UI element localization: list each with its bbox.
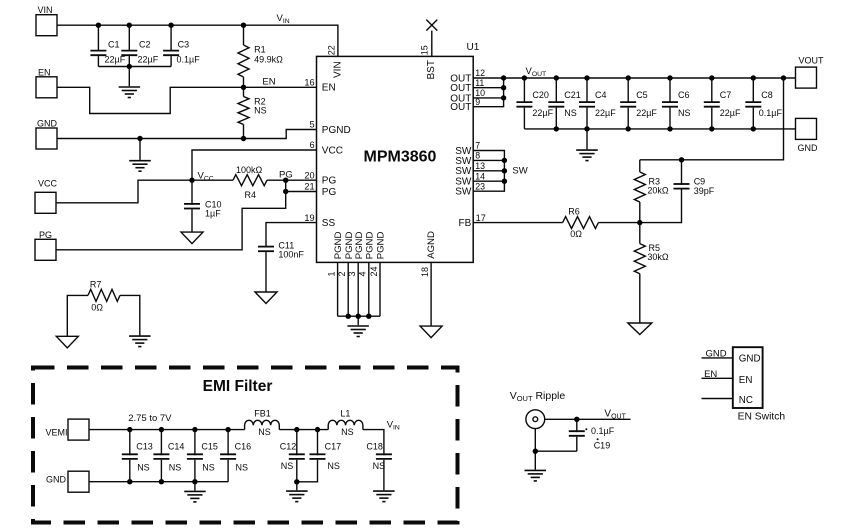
EMI filter dashed box (33, 368, 458, 523)
svg-text:U1: U1 (467, 42, 480, 53)
resistor R7 0ohm (67, 279, 140, 336)
svg-text:PG: PG (322, 187, 337, 198)
svg-text:FB: FB (459, 218, 472, 229)
svg-text:17: 17 (476, 213, 486, 223)
svg-text:PGND: PGND (376, 232, 387, 260)
ground triangle under C10 (181, 232, 203, 244)
svg-text:R7: R7 (90, 279, 102, 289)
svg-text:0Ω: 0Ω (570, 229, 582, 239)
capacitor C15 NS (187, 430, 218, 482)
wire L1 to C18 (363, 430, 384, 456)
junction dots VOUT rail (522, 75, 787, 80)
svg-text:7: 7 (475, 141, 480, 151)
ferrite bead FB1 (245, 409, 280, 437)
capacitor C2 (121, 25, 158, 66)
svg-text:23: 23 (475, 181, 485, 191)
ground under C2 (119, 67, 141, 98)
svg-text:VOUT: VOUT (799, 56, 825, 66)
svg-text:100nF: 100nF (278, 250, 304, 260)
net label Vout ripple (604, 409, 626, 421)
ground under PGND pins (347, 316, 369, 336)
svg-text:GND: GND (706, 349, 727, 360)
resistor R4 100k (192, 165, 317, 200)
pad GND (36, 118, 58, 149)
capacitor C10 1uF (184, 180, 222, 232)
svg-text:C14: C14 (168, 441, 185, 451)
capacitor C6 NS (662, 78, 691, 129)
pin label OUT pin 10 (450, 93, 471, 104)
pad VEMI (45, 419, 89, 440)
pin number 4 (358, 271, 368, 276)
pin number 10 (475, 88, 485, 98)
svg-text:C1: C1 (108, 40, 120, 50)
svg-text:8: 8 (475, 151, 480, 161)
capacitor C3 (163, 25, 200, 66)
connector Vout ripple jack (526, 410, 545, 429)
wire GND net to pin 5 (57, 130, 317, 139)
svg-text:3: 3 (347, 271, 357, 276)
pin number 16 (304, 78, 314, 88)
svg-text:22µF: 22µF (595, 108, 616, 118)
ground under C4 (576, 129, 598, 161)
svg-text:C5: C5 (636, 90, 648, 100)
junction dots C12 C17 top (294, 427, 320, 432)
net label Vcc (198, 171, 214, 183)
svg-text:GND: GND (46, 475, 67, 485)
svg-text:NS: NS (341, 427, 354, 437)
wire pin 19 SS net (266, 223, 317, 248)
svg-text:C20: C20 (532, 90, 549, 100)
svg-text:C8: C8 (761, 90, 773, 100)
net label EN (262, 77, 275, 88)
wire FB1 to C12/C17 (279, 429, 328, 431)
svg-text:FB1: FB1 (254, 409, 271, 419)
capacitor C1 (90, 25, 125, 66)
svg-text:GND: GND (798, 143, 819, 153)
pin number 1 (326, 271, 336, 276)
pin number 23 (475, 181, 485, 191)
net label Vout (526, 66, 547, 78)
svg-text:C3: C3 (178, 40, 190, 50)
pin label PGND pin 1 (333, 232, 344, 260)
pin label BST (426, 60, 437, 79)
svg-text:C2: C2 (139, 40, 151, 50)
svg-text:NS: NS (281, 461, 294, 471)
wire FB net (473, 222, 562, 224)
pad VIN (36, 5, 57, 36)
pin label PGND pin 5 (322, 125, 351, 136)
net label VIN EMI (387, 420, 400, 432)
pad EN (36, 68, 57, 98)
ground triangle under C11 (255, 292, 277, 304)
svg-text:VCC: VCC (322, 145, 343, 156)
svg-text:15: 15 (419, 45, 429, 55)
pin number 18 (420, 267, 430, 277)
net label VIN (277, 13, 290, 25)
svg-text:13: 13 (475, 161, 485, 171)
svg-text:GND: GND (37, 118, 58, 128)
svg-text:2: 2 (337, 271, 347, 276)
pad GND EMI (46, 471, 89, 492)
svg-text:22: 22 (326, 45, 336, 55)
svg-text:0.1µF: 0.1µF (759, 108, 783, 118)
svg-text:C17: C17 (325, 441, 342, 451)
capacitor C11 100nF (258, 241, 304, 292)
svg-text:C19: C19 (594, 441, 611, 451)
pin number 24 (369, 266, 379, 276)
inductor L1 (328, 409, 363, 437)
pin number 15 (419, 45, 429, 55)
pin label PG pin 20 (322, 176, 337, 187)
svg-text:NS: NS (236, 463, 249, 473)
resistor R5 30k (634, 223, 669, 323)
svg-text:EN: EN (38, 68, 51, 78)
pad PG (35, 230, 56, 260)
junction dots PGND bar (346, 314, 372, 319)
junction dot EN/R1 (241, 85, 246, 90)
label EN (704, 369, 717, 380)
pin label OUT pin 12 (450, 73, 471, 84)
svg-text:VEMI: VEMI (45, 428, 67, 438)
ground under C12 (286, 482, 308, 502)
capacitor C8 0.1µF (745, 78, 782, 129)
pin number 17 (476, 213, 486, 223)
ground triangle AGND (420, 326, 442, 338)
pad VCC (35, 179, 58, 214)
svg-text:EN: EN (704, 369, 717, 380)
svg-text:22µF: 22µF (138, 55, 159, 65)
svg-text:14: 14 (475, 171, 485, 181)
pin number 5 (309, 120, 314, 130)
svg-text:NS: NS (373, 461, 386, 471)
junction dots EMI bottom rail (127, 479, 197, 484)
wire Vout ripple top (545, 418, 631, 420)
pin label SW pin 7 (455, 146, 472, 157)
svg-text:NS: NS (678, 108, 691, 118)
svg-text:1µF: 1µF (205, 209, 221, 219)
junction dot FB node (637, 220, 642, 225)
label GND (706, 349, 727, 360)
svg-text:NS: NS (327, 461, 340, 471)
wire cap bank bottom rail (524, 128, 795, 130)
wire EMI bottom rail (89, 481, 228, 483)
svg-text:MPM3860: MPM3860 (364, 149, 437, 166)
capacitor C9 39pF (640, 160, 715, 223)
title EMI Filter (203, 378, 273, 395)
svg-text:20kΩ: 20kΩ (647, 186, 669, 196)
resistor R1 49.9k (238, 25, 283, 87)
pin label SW pin 23 (455, 187, 472, 198)
svg-text:C13: C13 (136, 441, 153, 451)
pin label FB (459, 218, 472, 229)
capacitor C18 NS (366, 441, 392, 490)
svg-text:0Ω: 0Ω (91, 303, 103, 313)
svg-text:R4: R4 (245, 190, 257, 200)
junction dots SW bus (502, 158, 507, 184)
pin label VCC pin 6 (322, 145, 343, 156)
svg-text:GND: GND (739, 353, 761, 364)
pin label PGND pin 24 (376, 232, 387, 260)
capacitor C19 0.1uF (569, 419, 615, 451)
svg-text:C6: C6 (678, 90, 690, 100)
capacitor C21 NS (548, 78, 581, 129)
svg-text:PGND: PGND (333, 232, 344, 260)
pin label OUT pin 9 (450, 102, 471, 113)
wire EN switch GND (702, 357, 733, 359)
ground under C18 (373, 491, 395, 502)
junction dot Vcc node (189, 178, 194, 183)
ground bars R7 right (129, 336, 151, 347)
svg-text:EN Switch: EN Switch (738, 411, 786, 422)
pin number 20 (304, 170, 314, 180)
svg-text:PG: PG (39, 230, 52, 240)
pin number 21 (304, 182, 314, 192)
svg-text:NS: NS (137, 463, 150, 473)
wire PGND bottom stubs (338, 262, 380, 316)
pin label SW pin 14 (455, 177, 472, 188)
pin number 22 (326, 45, 336, 55)
resistor R2 NS (238, 87, 267, 138)
svg-text:EN: EN (262, 77, 275, 88)
ground triangle under R5 (628, 323, 652, 335)
svg-text:PGND: PGND (364, 232, 375, 260)
svg-text:100kΩ: 100kΩ (236, 165, 263, 175)
wire SW pins bus (473, 151, 504, 192)
ground on GND net (129, 139, 151, 172)
svg-text:NS: NS (202, 463, 215, 473)
junction dot C2 bottom (127, 64, 132, 69)
pin label PGND pin 3 (354, 232, 365, 260)
wire Vout ripple bottom (535, 429, 577, 470)
pin number 11 (475, 78, 484, 88)
svg-text:0.1µF: 0.1µF (177, 55, 201, 65)
svg-text:NS: NS (169, 463, 182, 473)
pin number 19 (304, 213, 314, 223)
op IC U1 MPM3860 (317, 42, 480, 262)
svg-text:R1: R1 (254, 44, 266, 54)
svg-text:C12: C12 (280, 441, 297, 451)
svg-text:C21: C21 (564, 90, 581, 100)
svg-text:39pF: 39pF (694, 186, 715, 196)
capacitor C16 NS (220, 430, 251, 482)
pin number 3 (347, 271, 357, 276)
wire OUT pins bus (473, 78, 503, 107)
junction dot C19 top (574, 417, 579, 422)
pin label SW pin 13 (455, 166, 472, 177)
wire EMI input rail (89, 429, 245, 431)
svg-text:PG: PG (322, 176, 337, 187)
pin number 12 (475, 68, 485, 78)
EN switch box (733, 347, 763, 408)
no-connect X on BST (426, 20, 437, 31)
pin label VIN (333, 61, 344, 78)
junction dots VIN rail (96, 23, 247, 28)
svg-text:SW: SW (455, 187, 472, 198)
svg-text:BST: BST (426, 60, 437, 79)
wire EN switch NC (702, 398, 733, 400)
pin number 8 (475, 151, 480, 161)
svg-text:SW: SW (455, 156, 472, 167)
svg-text:EN: EN (739, 375, 753, 386)
capacitor C17 NS (297, 430, 341, 482)
svg-text:22µF: 22µF (636, 108, 657, 118)
junction dots GND net (137, 136, 246, 141)
wire EN switch EN (702, 377, 733, 379)
net label PG (279, 169, 293, 180)
svg-text:SW: SW (512, 166, 527, 177)
svg-text:2.75 to 7V: 2.75 to 7V (128, 413, 172, 424)
svg-text:SW: SW (455, 166, 472, 177)
wire VCC pad to Vcc node (56, 180, 192, 203)
junction dots OUT bus (501, 75, 506, 100)
ground triangle R7 left (56, 336, 78, 348)
pin label EN pin 16 (322, 83, 336, 94)
wire pin 21 and PG pad net (56, 180, 317, 250)
junction dots EMI input rail (127, 427, 231, 432)
junction dot C9 top (679, 157, 684, 162)
svg-text:L1: L1 (340, 409, 350, 419)
wire BST pin 15 (431, 31, 433, 57)
junction dots PG node (283, 178, 288, 195)
pin label PGND pin 4 (364, 232, 375, 260)
label 2.75 to 7V (128, 413, 172, 424)
pad GND right (796, 118, 819, 152)
ground Vout ripple (525, 470, 547, 481)
junction dot ripple gnd (533, 449, 538, 454)
svg-text:6: 6 (309, 140, 314, 150)
svg-text:PGND: PGND (354, 232, 365, 260)
svg-text:EN: EN (322, 83, 336, 94)
pin number 7 (475, 141, 480, 151)
svg-text:NS: NS (564, 108, 577, 118)
svg-text:0.1µF: 0.1µF (591, 426, 615, 436)
svg-text:4: 4 (358, 271, 368, 276)
svg-text:C4: C4 (595, 90, 607, 100)
capacitor C14 NS (153, 430, 184, 482)
svg-text:19: 19 (304, 213, 314, 223)
wire EN net (57, 87, 317, 113)
capacitor C5 22µF (620, 78, 657, 129)
wire AGND stub (430, 262, 432, 326)
svg-text:22µF: 22µF (532, 108, 553, 118)
label Vout Ripple (510, 390, 566, 403)
svg-text:12: 12 (475, 68, 485, 78)
pin number 14 (475, 171, 485, 181)
pin label OUT pin 11 (450, 83, 471, 94)
wire pin 6 to Vcc node (192, 150, 317, 180)
svg-text:20: 20 (304, 170, 314, 180)
resistor R3 20k (634, 160, 669, 223)
pin label AGND (426, 231, 437, 259)
svg-text:C7: C7 (720, 90, 732, 100)
ground under C15 (184, 482, 206, 502)
capacitor C13 NS (122, 430, 153, 482)
wire VIN rail (57, 25, 338, 56)
junction dots bottom rail (554, 126, 756, 131)
pin label PGND pin 2 (344, 232, 355, 260)
svg-text:22µF: 22µF (720, 108, 741, 118)
svg-text:NC: NC (739, 395, 753, 406)
pad VOUT (796, 56, 825, 89)
net label SW (512, 166, 527, 177)
pin label SS pin 19 (322, 218, 336, 229)
wire VOUT rail (504, 77, 796, 79)
svg-text:C15: C15 (201, 441, 218, 451)
pin number 9 (475, 97, 480, 107)
wire C1-C3 bottom rail (98, 66, 171, 68)
capacitor C4 22µF (579, 78, 616, 129)
svg-text:18: 18 (420, 267, 430, 277)
svg-text:PGND: PGND (322, 125, 351, 136)
svg-text:VIN: VIN (38, 5, 53, 15)
svg-text:SS: SS (322, 218, 336, 229)
pin number 6 (309, 140, 314, 150)
svg-text:16: 16 (304, 78, 314, 88)
svg-text:NS: NS (254, 106, 267, 116)
svg-text:VCC: VCC (38, 179, 58, 189)
svg-text:AGND: AGND (426, 231, 437, 259)
capacitor C20 22µF (516, 78, 553, 129)
svg-text:11: 11 (475, 78, 484, 88)
label EN Switch (738, 411, 786, 422)
svg-text:24: 24 (369, 266, 379, 276)
svg-text:C18: C18 (366, 441, 383, 451)
svg-text:1: 1 (326, 271, 336, 276)
resistor R6 0ohm (563, 207, 640, 240)
svg-text:49.9kΩ: 49.9kΩ (254, 54, 283, 64)
svg-text:30kΩ: 30kΩ (647, 252, 669, 262)
pin label PG pin 21 (322, 187, 337, 198)
svg-text:21: 21 (304, 182, 314, 192)
pin number 13 (475, 161, 485, 171)
svg-text:C16: C16 (235, 441, 252, 451)
pin label SW pin 8 (455, 156, 472, 167)
svg-text:5: 5 (309, 120, 314, 130)
svg-text:EMI Filter: EMI Filter (203, 378, 273, 395)
svg-text:VIN: VIN (333, 61, 344, 78)
svg-text:NS: NS (258, 427, 271, 437)
svg-text:OUT: OUT (450, 102, 471, 113)
wire VOUT sense to divider (640, 78, 784, 160)
capacitor C7 22µF (704, 78, 741, 129)
junction dot C12 bottom (294, 479, 299, 484)
svg-text:R6: R6 (568, 207, 580, 217)
capacitor C12 NS (280, 430, 305, 482)
pin number 2 (337, 271, 347, 276)
